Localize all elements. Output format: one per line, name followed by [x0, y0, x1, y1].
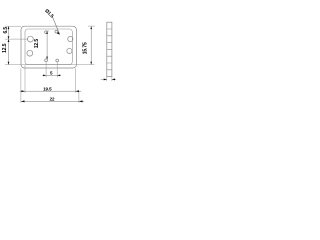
dim 22 bottom: [21, 100, 84, 102]
svg-text:19.5: 19.5: [43, 86, 52, 91]
hole bottom small A: [45, 59, 48, 62]
dim 19.5 bottom: [20, 90, 82, 92]
svg-text:15.75: 15.75: [83, 42, 89, 54]
hole left lower: [27, 50, 33, 56]
extension line full-width at inner rim bottom: [5, 64, 94, 66]
dim 12.5 centre: [46, 31, 48, 60]
leader arrowhead: [57, 32, 60, 35]
hole bottom small B: [56, 59, 59, 62]
hole top small A: [45, 31, 48, 34]
side view segment lines: [107, 29, 112, 70]
hole top small B: [55, 30, 58, 33]
hole right upper: [68, 36, 73, 41]
dim 5 bottom: [42, 74, 61, 76]
hole left upper: [28, 36, 34, 42]
extension lines: [5, 26, 112, 103]
svg-text:12.5: 12.5: [34, 39, 40, 49]
dim 12.5 left: [8, 39, 10, 65]
leader diameter 1.5: [52, 17, 59, 34]
plate inner rim outline: [25, 29, 72, 65]
plate outer outline: [21, 26, 76, 68]
side view outline: [107, 22, 112, 76]
svg-text:6.5: 6.5: [3, 27, 9, 34]
dim side thickness: [101, 78, 116, 80]
svg-text:12.5: 12.5: [2, 43, 8, 53]
dim 6.5 left: [8, 26, 10, 39]
dim 15.75 right: [90, 26, 92, 64]
hole right lower: [67, 48, 72, 53]
svg-text:22: 22: [50, 96, 55, 101]
